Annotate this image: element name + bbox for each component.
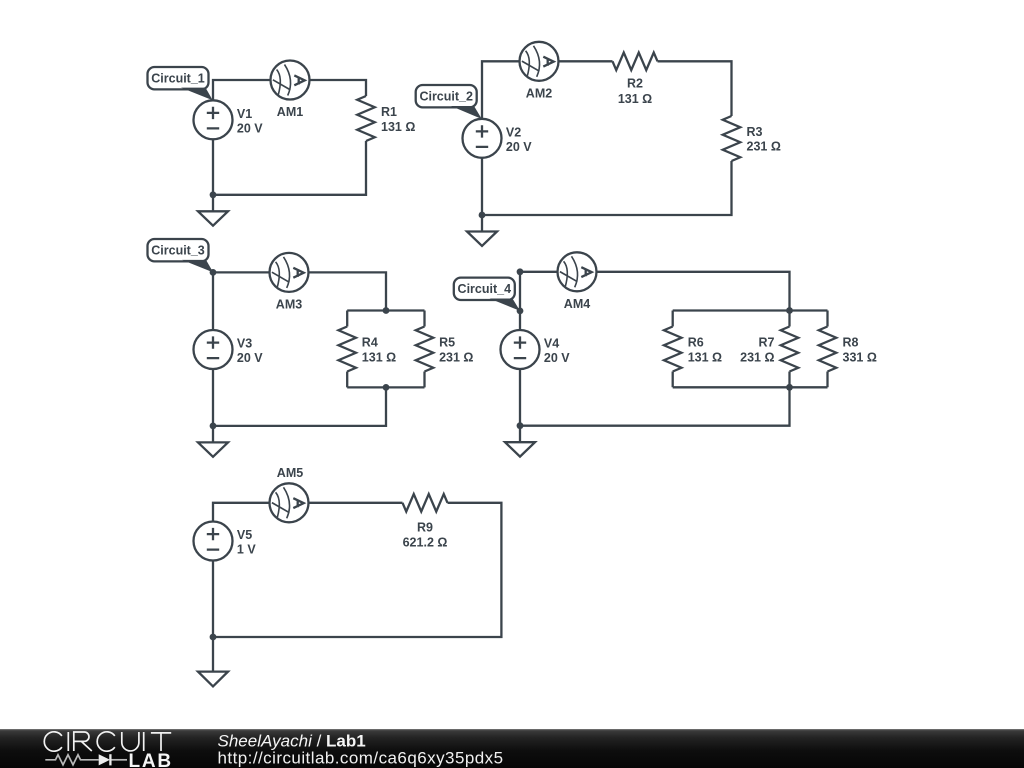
svg-text:R1: R1 (381, 105, 397, 119)
svg-text:V4: V4 (544, 337, 559, 351)
svg-text:Circuit_2: Circuit_2 (419, 90, 473, 104)
svg-text:Circuit_1: Circuit_1 (151, 72, 205, 86)
svg-text:R2: R2 (627, 77, 643, 91)
svg-text:R7: R7 (759, 336, 775, 350)
svg-text:621.2 Ω: 621.2 Ω (403, 536, 448, 550)
svg-text:231 Ω: 231 Ω (747, 140, 781, 154)
svg-text:331 Ω: 331 Ω (843, 350, 877, 364)
svg-text:R3: R3 (747, 125, 763, 139)
svg-text:131 Ω: 131 Ω (362, 350, 396, 364)
svg-text:http://circuitlab.com/ca6q6xy3: http://circuitlab.com/ca6q6xy35pdx5 (218, 749, 504, 768)
svg-text:SheelAyachi / Lab1: SheelAyachi / Lab1 (218, 731, 366, 750)
svg-text:V2: V2 (506, 125, 521, 139)
svg-text:131 Ω: 131 Ω (618, 92, 652, 106)
svg-text:131 Ω: 131 Ω (381, 120, 415, 134)
svg-text:V3: V3 (237, 337, 252, 351)
svg-text:AM5: AM5 (277, 466, 303, 480)
svg-text:V1: V1 (237, 107, 252, 121)
svg-text:V5: V5 (237, 528, 252, 542)
svg-text:20 V: 20 V (237, 121, 263, 135)
svg-text:R9: R9 (417, 521, 433, 535)
svg-text:Circuit_4: Circuit_4 (458, 282, 512, 296)
svg-text:LAB: LAB (129, 751, 173, 768)
svg-text:20 V: 20 V (237, 351, 263, 365)
svg-text:Circuit_3: Circuit_3 (151, 244, 205, 258)
svg-text:231 Ω: 231 Ω (439, 350, 473, 364)
svg-text:R8: R8 (843, 336, 859, 350)
svg-text:231 Ω: 231 Ω (740, 350, 774, 364)
svg-text:AM2: AM2 (526, 86, 552, 100)
svg-text:131 Ω: 131 Ω (688, 350, 722, 364)
svg-text:20 V: 20 V (544, 351, 570, 365)
svg-text:AM1: AM1 (277, 105, 303, 119)
svg-text:20 V: 20 V (506, 140, 532, 154)
svg-text:R6: R6 (688, 336, 704, 350)
svg-text:1 V: 1 V (237, 543, 256, 557)
svg-text:AM3: AM3 (276, 298, 302, 312)
svg-text:R5: R5 (439, 336, 455, 350)
svg-text:R4: R4 (362, 336, 378, 350)
svg-text:AM4: AM4 (564, 297, 590, 311)
